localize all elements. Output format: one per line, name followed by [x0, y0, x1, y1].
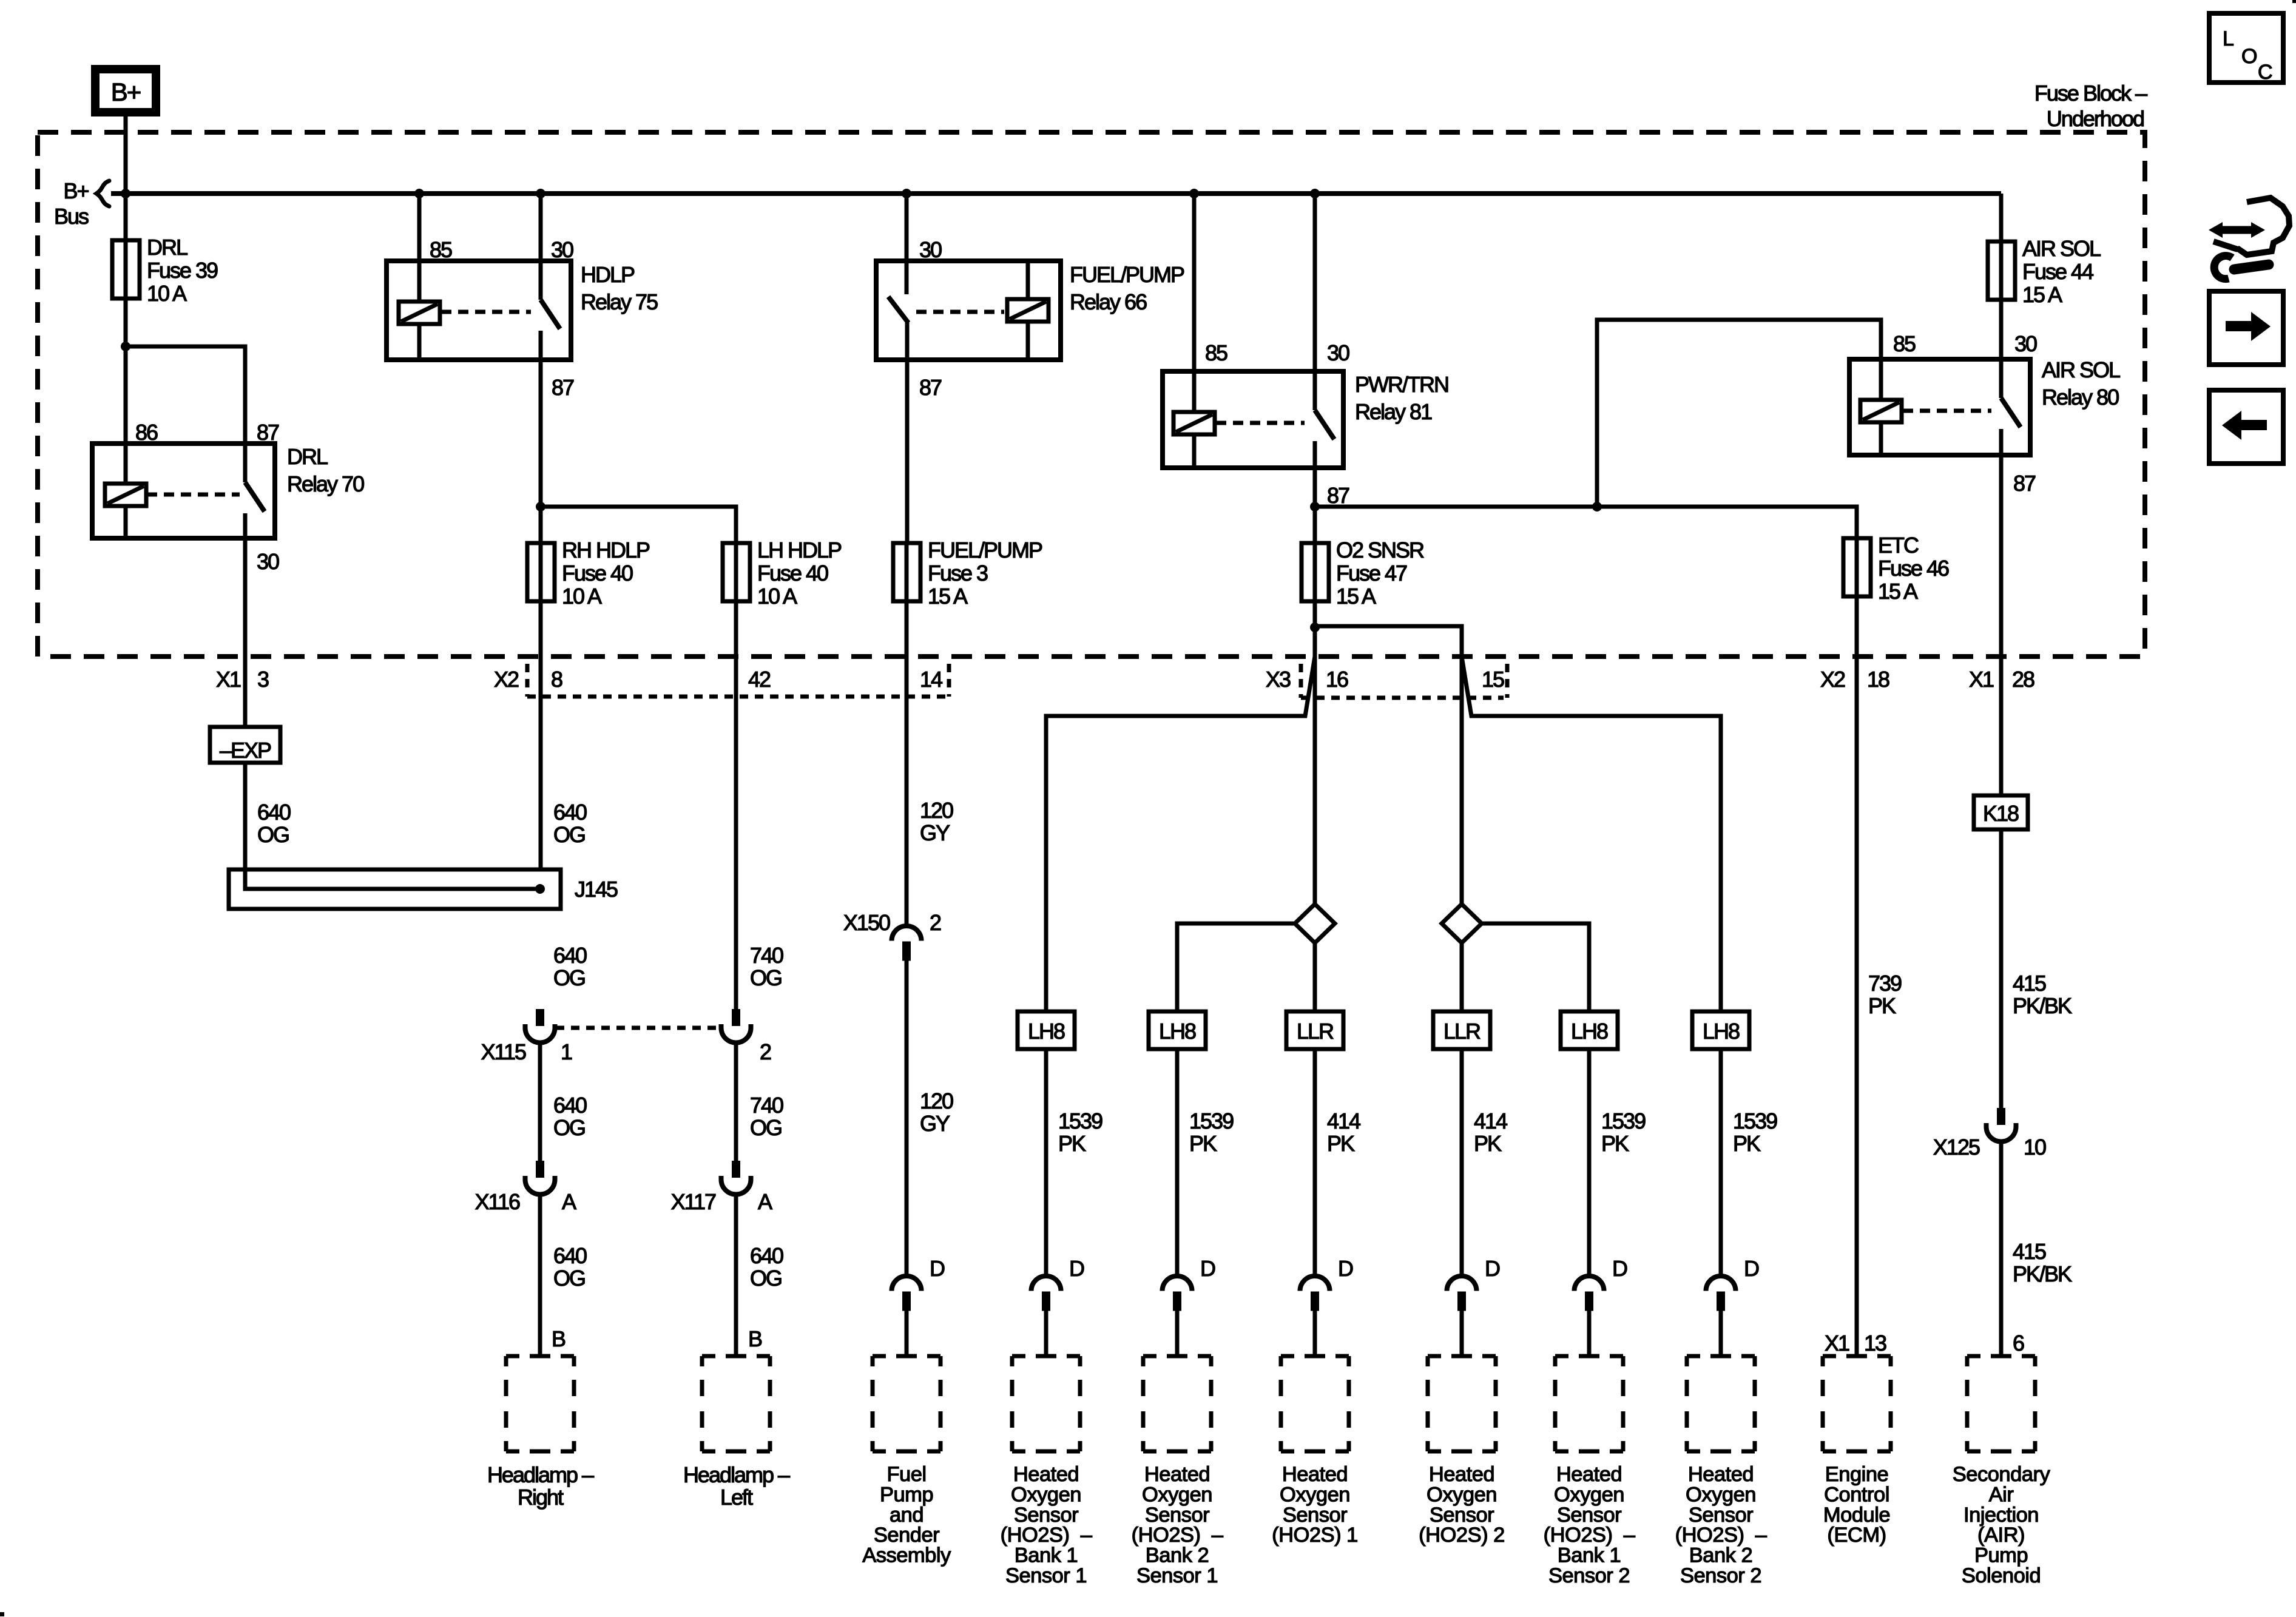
svg-text:Sensor 1: Sensor 1 [1005, 1564, 1087, 1587]
svg-text:10: 10 [2024, 1135, 2046, 1160]
connector label 15 [1482, 667, 1504, 692]
svg-text:X1: X1 [1825, 1331, 1849, 1355]
svg-text:X1: X1 [1969, 667, 1994, 692]
label Fuel Pump and Sender Assembly [862, 1463, 951, 1567]
svg-text:(HO2S) –: (HO2S) – [1544, 1524, 1636, 1547]
wire label 414 PK x2409 [1474, 1109, 1507, 1156]
svg-text:(HO2S) –: (HO2S) – [1132, 1524, 1224, 1547]
label X115 1 [481, 1039, 572, 1064]
node junction B+ bus at DRL fuse [121, 189, 130, 198]
svg-text:HDLP: HDLP [581, 262, 635, 287]
svg-text:Air: Air [1989, 1483, 2014, 1506]
pin label 86 relay70 [135, 420, 158, 445]
svg-text:Engine: Engine [1825, 1463, 1888, 1486]
component box HO2S 2 [1428, 1356, 1496, 1451]
pin label 30 relay81 [1327, 340, 1349, 365]
svg-text:Fuel: Fuel [886, 1463, 926, 1486]
wire - X115-1 down [538, 1043, 542, 1163]
wire label 1539 PK x1724 [1058, 1109, 1102, 1156]
svg-text:LLR: LLR [1297, 1019, 1334, 1044]
svg-text:FUEL/PUMP: FUEL/PUMP [1070, 262, 1184, 287]
wire - bus to DRL fuse 39 [124, 194, 128, 240]
svg-text:AIR SOL: AIR SOL [2022, 236, 2101, 261]
wire label 120 GY (upper) [920, 798, 953, 845]
svg-text:Bank 2: Bank 2 [1689, 1544, 1752, 1567]
relay K75 switch blade [541, 300, 560, 329]
svg-text:Headlamp –: Headlamp – [487, 1462, 594, 1487]
svg-text:PK: PK [1327, 1131, 1355, 1156]
icon LOC box [2209, 13, 2283, 84]
label X117 A [671, 1189, 772, 1214]
svg-text:640: 640 [257, 800, 291, 825]
svg-text:OG: OG [553, 965, 585, 990]
pin label 87 relay80 [2013, 471, 2036, 496]
terminal tag LLR (HO2S1) [1286, 1011, 1343, 1049]
wire - bus corner to fuse 44 [1999, 194, 2004, 241]
fuse block - underhood dashed border [38, 132, 2145, 657]
label HO2S Bank1 Sensor2 [1544, 1463, 1636, 1587]
wire - fuse44 to relay80 pin30 [1999, 300, 2004, 398]
svg-text:1539: 1539 [1601, 1109, 1646, 1133]
svg-text:PK: PK [1868, 993, 1896, 1018]
svg-text:1539: 1539 [1733, 1109, 1777, 1133]
wire - D to component x2619 [1587, 1311, 1592, 1357]
wire - bus to relay75 pin85 [417, 194, 422, 302]
wire - relay66 coil top stub [1026, 261, 1030, 299]
svg-text:X150: X150 [843, 910, 890, 935]
svg-text:Heated: Heated [1429, 1463, 1494, 1486]
label HO2S Bank1 Sensor1 [1001, 1463, 1093, 1587]
wire - junction to relay70 pin86 (coil) [124, 346, 128, 484]
svg-text:OG: OG [750, 1266, 782, 1291]
svg-text:13: 13 [1864, 1331, 1886, 1355]
svg-text:O: O [2241, 45, 2257, 68]
wire - into J145 and across [245, 869, 540, 889]
relay K70 dashed actuator link [147, 493, 240, 497]
wire - D to component x1940 [1175, 1311, 1180, 1357]
wire - relay80 pin87 down [1999, 429, 2004, 795]
svg-text:Headlamp –: Headlamp – [683, 1462, 790, 1487]
svg-text:RH HDLP: RH HDLP [562, 538, 650, 562]
label J145 [575, 877, 618, 902]
svg-text:10 A: 10 A [147, 281, 187, 306]
svg-text:Sensor: Sensor [1014, 1504, 1078, 1527]
wire label 640 OG below J145 [553, 943, 587, 990]
svg-text:Relay 81: Relay 81 [1355, 399, 1432, 424]
svg-text:14: 14 [920, 667, 942, 692]
wire label 640 OG (X1-3) [257, 800, 291, 847]
pin label 87 relay70 [257, 420, 279, 445]
connector label 14 [920, 667, 942, 692]
svg-text:740: 740 [750, 1093, 783, 1118]
wire - relay80 coil to box bottom [1879, 422, 1883, 455]
svg-text:Sensor 2: Sensor 2 [1680, 1564, 1761, 1587]
wire - relay70 pin30 out [243, 513, 248, 538]
svg-text:Left: Left [720, 1485, 753, 1510]
component box Headlamp Right [506, 1356, 574, 1451]
fuse F40 RH HDLP 10A [527, 538, 650, 609]
svg-text:DRL: DRL [287, 444, 328, 469]
wire - junction down to X3-16 [1313, 627, 1317, 657]
relay K75 dashed actuator link [441, 310, 531, 314]
svg-text:30: 30 [919, 237, 942, 262]
svg-text:120: 120 [920, 1089, 953, 1113]
svg-text:X117: X117 [671, 1189, 716, 1214]
svg-text:Right: Right [518, 1485, 564, 1510]
label X116 A [475, 1189, 576, 1214]
label X150 2 [843, 910, 941, 935]
svg-text:87: 87 [2013, 471, 2036, 496]
svg-text:LH8: LH8 [1703, 1019, 1740, 1044]
wire - tag to D connector x2619 [1587, 1049, 1592, 1276]
svg-text:Fuse 46: Fuse 46 [1878, 556, 1949, 581]
wire - B+ feed from battery symbol down to B+ bus [124, 116, 128, 194]
connector D x2409 [1447, 1276, 1477, 1311]
wire - across to LH fuse 40 [541, 507, 736, 543]
svg-text:L: L [2223, 27, 2234, 50]
fuse F39 DRL 10A [112, 235, 218, 306]
svg-text:OG: OG [553, 822, 585, 847]
svg-text:D: D [1069, 1256, 1084, 1281]
svg-text:O2 SNSR: O2 SNSR [1336, 538, 1424, 562]
wire - D to component x2409 [1460, 1311, 1464, 1357]
wire - tag to D connector x2409 [1460, 1049, 1464, 1276]
icon arrow left box [2209, 390, 2283, 464]
svg-text:X1: X1 [216, 667, 241, 692]
svg-text:PK: PK [1601, 1131, 1629, 1156]
connector label X3 16 [1266, 667, 1348, 692]
wire - fuse3 down to X150 [905, 601, 909, 926]
svg-text:Oxygen: Oxygen [1280, 1483, 1350, 1506]
icon arrow right box [2209, 291, 2283, 365]
wire label 740 OG below 42 [750, 943, 783, 990]
svg-text:X115: X115 [481, 1039, 526, 1064]
wire - fuse39 to junction [124, 299, 128, 346]
label X125 10 [1933, 1135, 2046, 1160]
svg-text:D: D [1338, 1256, 1353, 1281]
wire - slant at 15 to HO2S B2S2 branch [1462, 657, 1721, 1011]
svg-text:PK/BK: PK/BK [2013, 1261, 2072, 1286]
svg-text:OG: OG [553, 1266, 585, 1291]
svg-text:Fuse 47: Fuse 47 [1336, 561, 1407, 586]
connector D x2619 [1575, 1276, 1604, 1311]
component box HO2S Bank2 Sensor2 [1687, 1356, 1755, 1451]
pin label D x1940 [1200, 1256, 1215, 1281]
connector D x1940 [1163, 1276, 1192, 1311]
wire - K18 down to X125 [1999, 829, 2004, 1108]
relay K80 switch blade [2001, 398, 2021, 427]
svg-text:18: 18 [1867, 667, 1889, 692]
relay K70 DRL Relay box [92, 444, 275, 538]
svg-text:Bank 1: Bank 1 [1015, 1544, 1078, 1567]
wire - diamond1 down to LLR [1313, 943, 1317, 1011]
connector D x2167 [1300, 1276, 1330, 1311]
svg-text:Oxygen: Oxygen [1427, 1483, 1497, 1506]
svg-text:640: 640 [553, 943, 587, 968]
svg-text:Sensor 1: Sensor 1 [1136, 1564, 1218, 1587]
svg-text:X2: X2 [1820, 667, 1845, 692]
label Secondary AIR Pump Solenoid [1953, 1463, 2051, 1587]
svg-text:30: 30 [551, 237, 573, 262]
label PWR/TRN Relay 81 [1355, 372, 1448, 424]
component box HO2S Bank1 Sensor2 [1555, 1356, 1623, 1451]
wire - relay81 coil to box bottom [1192, 434, 1197, 468]
svg-text:PK/BK: PK/BK [2013, 993, 2072, 1018]
wire - EXP to J145 [243, 763, 248, 869]
svg-text:Fuse 40: Fuse 40 [562, 561, 633, 586]
relay K80 AIR SOL Relay box [1849, 359, 2030, 455]
page period mark [0, 1612, 4, 1616]
label Headlamp - Left [683, 1462, 790, 1510]
wire - X116 to headlamp right [538, 1195, 542, 1357]
svg-text:Relay 75: Relay 75 [581, 289, 658, 314]
svg-text:OG: OG [257, 822, 289, 847]
svg-text:Relay 66: Relay 66 [1070, 289, 1147, 314]
relay K66 switch blade [888, 297, 908, 323]
svg-text:Oxygen: Oxygen [1011, 1483, 1081, 1506]
svg-text:1539: 1539 [1189, 1109, 1234, 1133]
svg-text:LH8: LH8 [1159, 1019, 1196, 1044]
power symbol B+ (battery positive) [95, 69, 156, 112]
wire label 1539 PK x2836 [1733, 1109, 1777, 1156]
svg-text:X125: X125 [1933, 1135, 1980, 1160]
connector label X1 13 (ECM) [1825, 1331, 1886, 1355]
svg-text:87: 87 [1327, 483, 1349, 508]
wire - diamond1 left branch to LH8 B2S1 [1177, 923, 1295, 1011]
svg-text:PK: PK [1733, 1131, 1761, 1156]
svg-text:OG: OG [553, 1115, 585, 1140]
connector X150 dome [892, 926, 922, 961]
fuse F46 ETC 15A [1843, 533, 1949, 604]
node junction B+ bus at relay66 pin30 [902, 189, 911, 198]
relay K70 switch blade [245, 482, 265, 511]
component -EXP box [210, 727, 280, 763]
wire label 739 PK [1868, 971, 1902, 1018]
pin label 85 relay80 [1893, 331, 1916, 356]
svg-text:Pump: Pump [880, 1483, 933, 1506]
connector D x1724 [1032, 1276, 1061, 1311]
label 2 (X115 pin2) [760, 1039, 771, 1064]
connector X116 [525, 1161, 555, 1195]
connector X2 dashed bracket [527, 664, 949, 697]
node junction B+ bus at relay81 pin85 [1189, 189, 1199, 198]
pin label 6 (AIR solenoid) [2013, 1331, 2024, 1355]
svg-text:Fuse 39: Fuse 39 [147, 258, 218, 283]
connector label X1 3 [216, 667, 269, 692]
svg-text:414: 414 [1474, 1109, 1507, 1133]
terminal tag LLR (HO2S2) [1433, 1011, 1490, 1049]
svg-text:Fuse 3: Fuse 3 [928, 561, 988, 586]
svg-text:LH8: LH8 [1571, 1019, 1608, 1044]
svg-text:Fuse 40: Fuse 40 [757, 561, 828, 586]
wire - tag to D connector x1724 [1044, 1049, 1048, 1276]
pin label 30 relay70 [257, 549, 279, 574]
svg-text:X2: X2 [494, 667, 519, 692]
svg-text:Sensor: Sensor [1145, 1504, 1209, 1527]
pin label D x2619 [1612, 1256, 1627, 1281]
svg-text:–EXP: –EXP [220, 738, 271, 763]
relay K75 HDLP Relay box [387, 261, 571, 360]
svg-text:LH8: LH8 [1028, 1019, 1065, 1044]
svg-text:D: D [1485, 1256, 1500, 1281]
svg-text:B: B [748, 1326, 762, 1351]
svg-text:Sensor 2: Sensor 2 [1548, 1564, 1630, 1587]
svg-text:2: 2 [760, 1039, 771, 1064]
svg-text:PK: PK [1474, 1131, 1502, 1156]
label FUEL/PUMP Relay 66 [1070, 262, 1184, 314]
connector X115 pin1 [525, 1009, 555, 1042]
svg-text:A: A [758, 1189, 772, 1214]
svg-text:Heated: Heated [1688, 1463, 1754, 1486]
svg-text:415: 415 [2013, 1239, 2046, 1264]
relay K81 dashed actuator link [1216, 421, 1305, 425]
relay K75 coil [399, 302, 440, 324]
svg-text:K18: K18 [1983, 801, 2019, 826]
pin label B headlamp right [552, 1326, 566, 1351]
label Headlamp - Right [487, 1462, 594, 1510]
svg-text:3: 3 [257, 667, 269, 692]
svg-text:(AIR): (AIR) [1977, 1524, 2025, 1547]
wire label 414 PK x2167 [1327, 1109, 1360, 1156]
svg-text:87: 87 [257, 420, 279, 445]
svg-text:28: 28 [2012, 667, 2034, 692]
wire - bus to relay81 pin30 [1313, 194, 1317, 410]
pin label 85 relay75 [430, 237, 452, 262]
svg-text:Solenoid: Solenoid [1962, 1564, 2041, 1587]
svg-text:B: B [552, 1326, 566, 1351]
svg-text:D: D [930, 1256, 945, 1281]
wire - fuse47 to junction [1313, 601, 1317, 627]
node junction B+ bus at relay81 pin30 [1310, 189, 1320, 198]
svg-text:LLR: LLR [1443, 1019, 1481, 1044]
pin label D x2167 [1338, 1256, 1353, 1281]
svg-text:Heated: Heated [1013, 1463, 1079, 1486]
svg-text:16: 16 [1326, 667, 1348, 692]
connector label 42 [748, 667, 771, 692]
svg-text:Sensor: Sensor [1430, 1504, 1494, 1527]
brace at B+ bus [96, 181, 109, 206]
wire - relay66 coil to box bottom [1026, 322, 1030, 360]
pin label 87 relay75 [552, 375, 574, 400]
svg-text:15: 15 [1482, 667, 1504, 692]
splice pack J145 box [229, 869, 561, 909]
svg-text:739: 739 [1868, 971, 1902, 996]
svg-text:Sensor: Sensor [1283, 1504, 1347, 1527]
svg-text:Bank 2: Bank 2 [1146, 1544, 1209, 1567]
wire - bus to relay81 pin85 [1192, 194, 1197, 412]
wire - D to component x2836 [1719, 1311, 1723, 1357]
wire - diamond2 down to LLR2 [1460, 943, 1464, 1011]
component box Headlamp Left [702, 1356, 770, 1451]
svg-text:(HO2S) 2: (HO2S) 2 [1419, 1524, 1505, 1547]
pin label 30 relay66 [919, 237, 942, 262]
splice diamond S2 [1442, 904, 1482, 943]
connector X117 [721, 1161, 751, 1195]
svg-text:D: D [1744, 1256, 1759, 1281]
svg-text:Sensor: Sensor [1557, 1504, 1621, 1527]
connector label X1 28 [1969, 667, 2034, 692]
svg-text:1539: 1539 [1058, 1109, 1102, 1133]
svg-text:Fuse 44: Fuse 44 [2022, 259, 2093, 284]
pin label D x1724 [1069, 1256, 1084, 1281]
svg-text:OG: OG [750, 965, 782, 990]
svg-text:OG: OG [750, 1115, 782, 1140]
svg-text:LH HDLP: LH HDLP [757, 538, 842, 562]
wire label 640 OG (headlamp L) [750, 1243, 783, 1291]
svg-text:640: 640 [553, 1093, 587, 1118]
component box HO2S Bank2 Sensor1 [1143, 1356, 1211, 1451]
node junction below fuse47 [1310, 623, 1320, 632]
label HO2S Bank2 Sensor2 [1675, 1463, 1768, 1587]
wire label 640 OG (to X116) [553, 1093, 587, 1140]
label HO2S Bank2 Sensor1 [1132, 1463, 1224, 1587]
wire - relay75 coil to box bottom [417, 324, 422, 360]
svg-text:120: 120 [920, 798, 953, 823]
svg-text:Injection: Injection [1963, 1504, 2039, 1527]
wire - tag to D connector x2167 [1313, 1049, 1317, 1276]
svg-text:640: 640 [750, 1243, 783, 1268]
pin label 30 relay75 [551, 237, 573, 262]
wire - bus to relay66 pin30 [905, 194, 909, 294]
pin label D x2409 [1485, 1256, 1500, 1281]
svg-text:AIR SOL: AIR SOL [2042, 357, 2120, 382]
wire - LH fuse down [734, 601, 738, 1009]
wire - relay70 coil to box bottom [124, 506, 128, 538]
svg-text:85: 85 [430, 237, 452, 262]
fuse F3 FUEL/PUMP 15A [893, 538, 1042, 609]
relay K80 dashed actuator link [1903, 409, 1991, 413]
connector X3 dashed bracket [1301, 664, 1507, 698]
svg-text:ETC: ETC [1878, 533, 1919, 558]
label HDLP Relay 75 [581, 262, 658, 314]
wire - fuse46 to ECM [1855, 596, 1859, 1356]
svg-text:GY: GY [920, 1111, 950, 1136]
svg-text:Underhood: Underhood [2047, 106, 2144, 131]
relay K66 coil [1007, 299, 1048, 322]
svg-text:15 A: 15 A [928, 584, 968, 609]
terminal tag LH8 (B2S2) [1692, 1011, 1749, 1049]
fuse F40L LH HDLP 10A [723, 538, 842, 609]
terminal tag LH8 (B1S2) [1561, 1011, 1618, 1049]
svg-text:Bank 1: Bank 1 [1558, 1544, 1621, 1567]
component box Fuel Pump and Sender Assembly [873, 1356, 940, 1451]
svg-text:85: 85 [1205, 340, 1227, 365]
wire - bus to relay75 pin30 [539, 194, 543, 300]
svg-text:DRL: DRL [147, 235, 187, 260]
relay K81 PWR/TRN Relay box [1163, 371, 1343, 468]
svg-text:C: C [2258, 61, 2272, 84]
svg-text:Secondary: Secondary [1953, 1463, 2051, 1486]
component box HO2S 1 [1281, 1356, 1349, 1451]
svg-text:B+: B+ [111, 78, 141, 106]
wire label 740 OG (to X117) [750, 1093, 783, 1140]
wire - diamond2 right branch to LH8 B1S2 [1482, 923, 1589, 1011]
svg-text:Module: Module [1823, 1504, 1890, 1527]
connector X115 dashed link [556, 1026, 720, 1030]
relay K81 coil [1173, 412, 1215, 434]
icon adjust (wrench with arrows) [2209, 198, 2289, 279]
svg-text:X116: X116 [475, 1189, 520, 1214]
component box Secondary AIR Pump Solenoid [1967, 1356, 2035, 1451]
svg-text:87: 87 [552, 375, 574, 400]
svg-text:(HO2S) –: (HO2S) – [1001, 1524, 1093, 1547]
wire - X117 to headlamp left [734, 1195, 738, 1357]
wire - X115-2 down [734, 1043, 738, 1163]
wire label 1539 PK x1940 [1189, 1109, 1234, 1156]
wire label 415 PK/BK (lower) [2013, 1239, 2072, 1286]
svg-text:and: and [890, 1504, 923, 1527]
svg-text:Oxygen: Oxygen [1686, 1483, 1756, 1506]
